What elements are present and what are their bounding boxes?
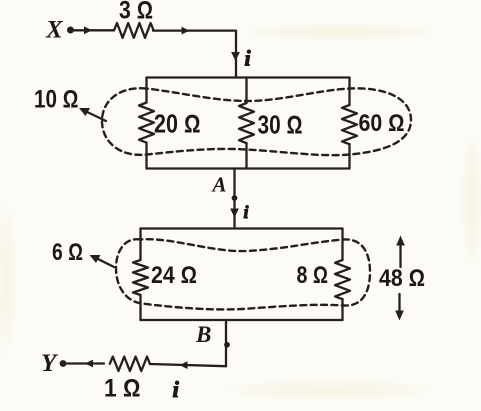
svg-text:B: B xyxy=(195,322,211,347)
terminal Y dot xyxy=(60,360,67,367)
svg-text:60 Ω: 60 Ω xyxy=(359,110,405,137)
arrow from loop1 to 10ohm label xyxy=(85,111,106,121)
svg-text:A: A xyxy=(211,173,227,197)
48ohm measuring arrow up xyxy=(399,242,401,267)
branch wire middle 30ohm xyxy=(245,78,247,169)
resistor 30ohm middle branch xyxy=(239,103,254,143)
dashed equivalence loop 10ohm around block1 xyxy=(102,88,411,155)
arrow current left near corner xyxy=(180,361,188,369)
block2 top rail xyxy=(141,227,343,229)
resistor 60ohm on right edge xyxy=(342,105,357,144)
resistor 20ohm on left edge xyxy=(139,103,154,143)
wire X to resistor R1 xyxy=(74,29,115,31)
svg-text:i: i xyxy=(245,46,252,71)
svg-text:1 Ω: 1 Ω xyxy=(104,375,141,403)
node A dot xyxy=(232,195,238,201)
resistor 24ohm on left edge xyxy=(133,260,148,295)
svg-text:24 Ω: 24 Ω xyxy=(151,262,197,289)
resistor R2 1ohm zigzag xyxy=(110,357,150,371)
svg-text:30 Ω: 30 Ω xyxy=(258,112,303,140)
arrow current i down at A xyxy=(230,209,239,218)
dashed equivalence loop 6ohm around block2 xyxy=(116,239,370,309)
wire node A block1 to block2 xyxy=(233,169,235,229)
svg-text:48 Ω: 48 Ω xyxy=(379,265,425,292)
wire R1 to corner node xyxy=(153,31,236,78)
block1 top rail xyxy=(147,76,350,78)
arrow current left before Y xyxy=(85,360,93,368)
wire R2 to terminal Y xyxy=(67,362,105,364)
svg-text:i: i xyxy=(173,377,180,402)
arrow current i down into block1 xyxy=(231,52,240,61)
svg-text:6 Ω: 6 Ω xyxy=(52,239,83,266)
arrow current right on X wire xyxy=(84,26,92,34)
block1 left edge leads xyxy=(145,78,147,169)
bottom return wire to resistor R2 xyxy=(150,364,226,366)
svg-text:i: i xyxy=(244,202,249,222)
block2 left edge leads xyxy=(139,229,141,321)
48ohm measuring arrow down xyxy=(398,294,400,315)
arrow from loop2 to 6ohm label xyxy=(95,258,114,268)
svg-text:20 Ω: 20 Ω xyxy=(154,111,201,139)
block2 bottom rail xyxy=(141,319,343,321)
block1 right edge leads xyxy=(348,78,350,169)
resistor R1 3ohm zigzag xyxy=(114,23,154,38)
terminal X dot xyxy=(67,27,74,34)
svg-text:8 Ω: 8 Ω xyxy=(297,262,329,289)
resistor 8ohm on right edge xyxy=(335,260,350,299)
arrow current right after R1 xyxy=(182,27,190,35)
wire node B down to bottom rail xyxy=(225,320,227,366)
svg-text:X: X xyxy=(45,17,64,44)
block1 bottom rail xyxy=(147,167,350,169)
svg-text:3 Ω: 3 Ω xyxy=(119,0,153,25)
svg-text:10 Ω: 10 Ω xyxy=(34,86,79,114)
block2 right edge leads xyxy=(341,229,343,321)
node B dot xyxy=(224,342,230,348)
